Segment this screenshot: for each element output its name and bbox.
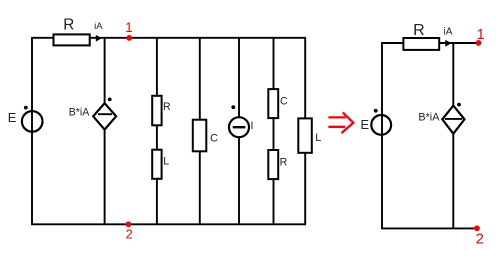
voltage source E (left circuit) xyxy=(8,106,43,132)
wire: C branch vertical xyxy=(199,38,201,225)
svg-text:B*iA: B*iA xyxy=(418,112,440,124)
svg-text:C: C xyxy=(210,132,218,144)
wire: R-L series branch vertical xyxy=(156,38,158,225)
dependent source B*iA (left circuit) xyxy=(69,98,116,130)
resistor R (C-R branch) xyxy=(268,150,287,179)
node 2 (right circuit) xyxy=(474,225,484,247)
wire: left circuit left vertical (E branch) xyxy=(31,38,33,225)
wire: I source branch vertical xyxy=(238,38,240,225)
wire: left circuit bottom rail xyxy=(31,223,306,225)
node 1 (right circuit) xyxy=(476,27,485,46)
dependent source B*iA (right circuit) xyxy=(418,103,464,134)
node 2 (left circuit) xyxy=(126,221,133,241)
wire: right circuit B*iA branch vertical xyxy=(452,43,454,228)
svg-text:E: E xyxy=(8,110,17,125)
svg-text:iA: iA xyxy=(94,21,103,32)
svg-text:R: R xyxy=(163,101,171,113)
wire: B*iA branch vertical xyxy=(104,38,106,225)
wire: right circuit bottom rail xyxy=(381,227,477,229)
svg-text:L: L xyxy=(315,132,321,144)
svg-text:1: 1 xyxy=(477,27,485,43)
wire: right circuit left vertical (E branch) xyxy=(381,43,383,228)
current source I xyxy=(229,105,253,137)
svg-text:R: R xyxy=(280,157,288,169)
capacitor C (C-R branch) xyxy=(268,89,288,118)
wire: left circuit top rail xyxy=(31,37,306,39)
wire: C-R series branch vertical xyxy=(273,38,275,225)
svg-text:2: 2 xyxy=(126,228,133,242)
svg-text:2: 2 xyxy=(476,231,484,248)
resistor R (R-L branch) xyxy=(152,96,171,126)
svg-text:I: I xyxy=(251,120,254,132)
svg-text:iA: iA xyxy=(444,27,453,38)
svg-text:L: L xyxy=(163,156,169,168)
svg-text:C: C xyxy=(280,96,288,108)
wire: right circuit top rail xyxy=(381,42,479,44)
node 1 (left circuit) xyxy=(125,20,132,41)
svg-text:E: E xyxy=(361,117,370,132)
svg-text:R: R xyxy=(63,16,74,33)
inductor L (right-most branch of left circuit) xyxy=(298,118,321,152)
svg-text:B*iA: B*iA xyxy=(69,106,91,118)
resistor R (right circuit) xyxy=(403,22,439,50)
current arrow iA (right circuit) xyxy=(444,27,453,47)
capacitor C (C branch) xyxy=(193,120,218,152)
equivalence arrow (red double arrow) xyxy=(328,112,353,133)
wire: L branch vertical xyxy=(304,38,306,225)
svg-text:R: R xyxy=(413,22,425,39)
current arrow iA (left circuit) xyxy=(94,21,103,41)
svg-text:1: 1 xyxy=(125,20,132,35)
resistor R (left circuit, top) xyxy=(54,16,90,45)
inductor L (R-L branch) xyxy=(152,150,169,179)
voltage source E (right circuit) xyxy=(361,109,392,135)
